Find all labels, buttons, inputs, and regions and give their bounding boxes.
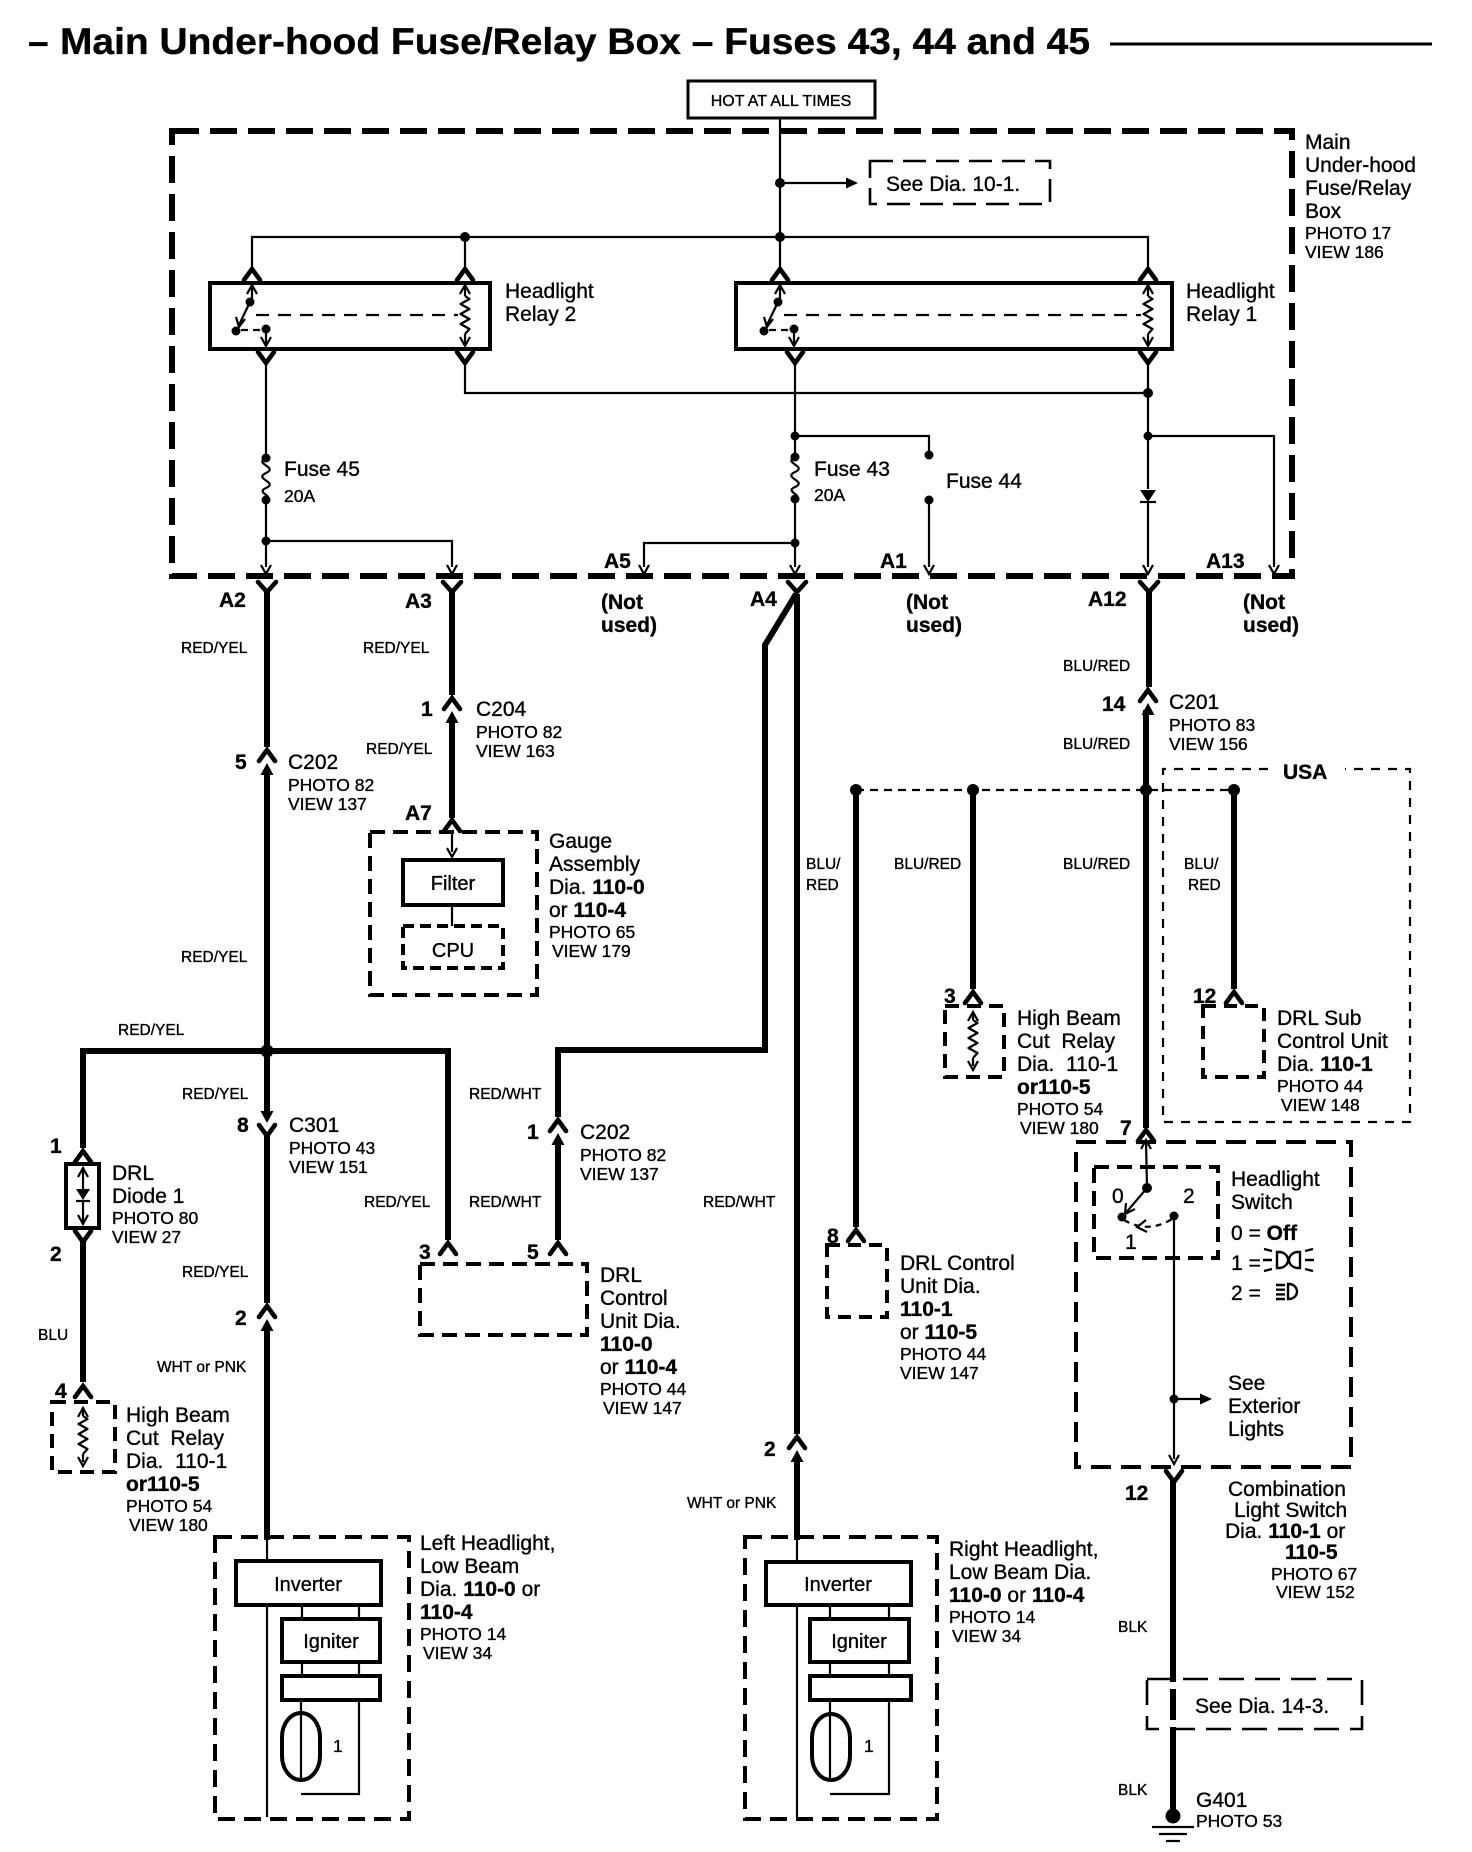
wire: socket to bulb (left) [301,1700,359,1794]
pin arrow into A2 [261,565,271,574]
connector C204 pin 1 [421,698,562,761]
svg-text:BLU/: BLU/ [1184,856,1219,873]
svg-text:110-0: 110-0 [600,1333,653,1356]
connector half: relay 1 coil output [1140,352,1156,363]
connector: DRL diode pin 1 [50,1135,91,1162]
svg-text:110-4: 110-4 [420,1601,473,1624]
wire: inverter return (left) [266,1605,268,1817]
wire: C201 to headlight switch pin 7 (BLU/RED) [1143,710,1149,1128]
svg-text:BLU: BLU [38,1327,68,1344]
svg-text:8: 8 [237,1114,249,1137]
svg-text:Relay 1: Relay 1 [1186,303,1257,326]
svg-text:C204: C204 [476,698,527,721]
svg-text:RED/YEL: RED/YEL [182,1264,249,1281]
svg-text:RED/WHT: RED/WHT [469,1194,542,1211]
svg-text:See: See [1228,1372,1265,1395]
svg-text:Fuse 45: Fuse 45 [284,458,360,481]
node: BLU/RED junction on main wire [1140,784,1152,796]
pin arrow into A3 [447,565,457,574]
svg-text:Box: Box [1305,200,1342,223]
wire: diode to relay (BLU) [80,1240,86,1382]
wire: BLK to ground [1170,1480,1176,1814]
wires: igniter to socket (right) [830,1662,889,1676]
svg-text:Lights: Lights [1228,1418,1284,1441]
svg-text:PHOTO 43: PHOTO 43 [289,1138,375,1158]
label: Fuse 45 20A [284,458,360,506]
svg-text:PHOTO 82: PHOTO 82 [476,722,562,742]
svg-text:Right Headlight,: Right Headlight, [949,1538,1098,1561]
svg-text:Dia. 110-1: Dia. 110-1 [1017,1053,1118,1076]
relay: High Beam Cut Relay (right) [945,1006,1004,1077]
svg-text:Dia. 110-1 or: Dia. 110-1 or [1225,1520,1345,1543]
svg-text:Diode 1: Diode 1 [112,1185,184,1208]
label: DRL Control Unit (right) [900,1252,1015,1383]
svg-text:Main: Main [1305,131,1351,154]
wire: to Left Headlight (WHT or PNK) [264,1326,270,1540]
svg-text:PHOTO 82: PHOTO 82 [288,775,374,795]
svg-text:or 110-5: or 110-5 [900,1321,977,1344]
svg-text:2: 2 [1183,1185,1195,1208]
svg-text:See Dia. 10-1.: See Dia. 10-1. [886,173,1020,196]
wire: switch output to combination light switch pin 12 [1173,1216,1175,1459]
svg-text:Control: Control [600,1287,668,1310]
svg-text:WHT or PNK: WHT or PNK [157,1359,247,1376]
wire: branch to A13 [1148,436,1274,567]
svg-text:Under-hood: Under-hood [1305,154,1416,177]
ground G401 [1152,1809,1194,1842]
svg-text:PHOTO 17: PHOTO 17 [1305,223,1391,243]
svg-text:PHOTO 83: PHOTO 83 [1169,715,1255,735]
switch S1 detail box (dashed) [1094,1167,1218,1258]
svg-text:Headlight: Headlight [1186,280,1275,303]
svg-text:BLU/: BLU/ [806,856,841,873]
svg-text:DRL: DRL [112,1162,154,1185]
svg-text:PHOTO 14: PHOTO 14 [420,1624,507,1644]
svg-text:PHOTO 44: PHOTO 44 [600,1379,687,1399]
svg-text:20A: 20A [814,485,845,505]
svg-text:DRL Control: DRL Control [900,1252,1015,1275]
diode assembly: DRL Diode 1 [66,1164,99,1228]
wires: igniter to socket (left) [302,1662,359,1676]
connector: DRL control unit pin 3 [419,1241,456,1264]
svg-text:VIEW 152: VIEW 152 [1276,1582,1355,1602]
connector half: relay 1 coil pin top [1140,269,1156,280]
svg-text:Low Beam: Low Beam [420,1555,519,1578]
wires: inverter to igniter (left) [302,1605,359,1619]
svg-text:20A: 20A [284,486,315,506]
connector: DRL control unit pin 5 [527,1241,566,1264]
svg-text:110-1: 110-1 [900,1298,953,1321]
svg-text:or110-5: or110-5 [1017,1076,1091,1099]
svg-text:A3: A3 [405,590,432,613]
label: Combination Light Switch [1225,1478,1357,1602]
wire: HOT feed vertical into box [779,118,781,270]
svg-text:Dia. 110-1: Dia. 110-1 [1277,1053,1373,1076]
connector: combination light switch pin 12 [1125,1471,1182,1505]
svg-text:VIEW 34: VIEW 34 [423,1643,492,1663]
svg-text:Left Headlight,: Left Headlight, [420,1532,555,1555]
label: DRL Diode 1 [112,1162,199,1247]
svg-text:or 110-4: or 110-4 [600,1356,677,1379]
label: BLU/ RED (two line, left) [806,856,841,894]
net: BLU/RED distribution (dashed tie line) [856,789,1234,791]
connector half: relay 2 switch pin top [244,269,260,280]
svg-text:DRL Sub: DRL Sub [1277,1007,1361,1030]
svg-text:VIEW 147: VIEW 147 [603,1398,682,1418]
connector: DRL diode pin 2 [50,1231,91,1266]
svg-text:110-0 or 110-4: 110-0 or 110-4 [949,1584,1085,1607]
node: BLU/RED tap to high beam cut relay [967,784,979,796]
svg-text:Unit Dia.: Unit Dia. [600,1310,681,1333]
wire: C202 pin 5 to junction (RED/YEL) [264,770,270,1051]
svg-text:7: 7 [1120,1117,1132,1140]
svg-text:used): used) [906,614,962,637]
module: Headlight Switch (dashed boundary) [1076,1142,1351,1467]
svg-text:1 =: 1 = [1231,1252,1261,1275]
node: coil bus junction on relay 1 coil drop [1143,388,1153,398]
wire: A4 feed straight drop (RED/WHT to right headlight) [794,594,800,1434]
wire: inverter return (right) [796,1605,798,1817]
svg-text:14: 14 [1102,693,1126,716]
wire: relay 2 switch output to Fuse 45 [265,363,267,458]
svg-text:Control Unit: Control Unit [1277,1030,1388,1053]
svg-text:A2: A2 [219,589,246,612]
node: branch to Fuse 44 [791,432,800,441]
wire: A3 feed (RED/YEL) to C204 [449,590,455,695]
svg-text:4: 4 [55,1380,67,1403]
node: bus junction at relay 1 switch feed [775,232,785,242]
svg-text:RED/YEL: RED/YEL [182,1086,249,1103]
svg-text:A1: A1 [880,550,907,573]
label: A5 (Not used) [601,591,657,637]
svg-text:G401: G401 [1196,1789,1247,1812]
lamp: right low beam bulb [812,1714,874,1780]
relay K1 mechanical link (dashed) [784,314,1141,316]
node: tap to See Dia. 10-1 [775,178,785,188]
pin arrow into A1 [924,565,934,574]
svg-text:VIEW 163: VIEW 163 [476,741,555,761]
connector: gauge assembly pin A7 [405,802,460,831]
svg-text:VIEW 137: VIEW 137 [288,794,367,814]
Main Under-hood Fuse/Relay Box boundary (dashed) [172,131,1292,576]
svg-text:2: 2 [235,1307,247,1330]
svg-text:used): used) [1243,614,1299,637]
svg-text:BLU/RED: BLU/RED [894,856,961,873]
svg-text:Cut Relay: Cut Relay [126,1427,225,1450]
connector: DRL sub control unit pin 12 [1193,985,1242,1008]
svg-text:PHOTO 44: PHOTO 44 [1277,1076,1364,1096]
svg-text:Low Beam Dia.: Low Beam Dia. [949,1561,1091,1584]
block: bulb socket (left) [282,1676,380,1700]
connector half: relay 1 switch pin top [772,269,788,280]
svg-text:C201: C201 [1169,691,1219,714]
label: G401 [1196,1789,1282,1831]
connector C301 pin 8 [237,1111,375,1177]
svg-text:VIEW 148: VIEW 148 [1281,1095,1360,1115]
wire: A12 feed (BLU/RED) to C201 [1146,590,1152,687]
relay: High Beam Cut Relay (left) [52,1402,115,1472]
node: bus junction at relay 2 coil feed [460,232,470,242]
connector: right headlight pin 2 [764,1437,805,1462]
label: Headlight Relay 2 [505,280,594,326]
svg-text:Fuse 43: Fuse 43 [814,458,890,481]
svg-text:Fuse/Relay: Fuse/Relay [1305,177,1412,200]
svg-text:CPU: CPU [432,940,474,962]
svg-text:2 =: 2 = [1231,1282,1261,1305]
label: A13 (Not used) [1243,591,1299,637]
svg-text:VIEW 27: VIEW 27 [112,1227,181,1247]
svg-text:VIEW 34: VIEW 34 [952,1626,1021,1646]
svg-text:VIEW 156: VIEW 156 [1169,734,1248,754]
wire: Fuse 45 to A2 / A3 [265,500,267,567]
wire: arrow to See Dia. 10-1 [780,178,858,189]
svg-text:VIEW 137: VIEW 137 [580,1164,659,1184]
wire: arrow to See Exterior Lights [1174,1394,1212,1405]
svg-text:A13: A13 [1206,550,1245,573]
svg-text:3: 3 [419,1241,431,1264]
svg-text:HOT AT ALL TIMES: HOT AT ALL TIMES [711,93,852,110]
reference box: See Dia. 10-1. [870,161,1050,204]
node: BLU/RED tap to DRL control unit [850,784,862,796]
connector half: relay 2 coil output [457,352,473,363]
power label HOT AT ALL TIMES [688,81,875,118]
fuse F44 (not installed) [925,451,934,505]
connector: DRL control unit pin 8 [827,1225,864,1248]
svg-text:RED/YEL: RED/YEL [366,741,433,758]
svg-text:PHOTO 54: PHOTO 54 [1017,1099,1104,1119]
node: tap to exterior lights [1170,1395,1179,1404]
block: CPU (dashed) [403,926,503,968]
wire: Fuse 44 to A1 [928,500,930,567]
wire: BLU/RED drop to high beam cut relay pin 3 [970,790,976,989]
region: USA (dashed outline) [1163,761,1410,1122]
svg-text:1: 1 [527,1121,539,1144]
wires: inverter to igniter (right) [830,1605,889,1619]
label: Headlight Relay 1 [1186,280,1275,326]
svg-text:Gauge: Gauge [549,830,612,853]
wire: junction down to C301 [264,1051,270,1114]
Main Under-hood Fuse/Relay Box label [1305,131,1416,262]
svg-text:1: 1 [333,1736,343,1756]
svg-text:Dia. 110-1: Dia. 110-1 [126,1450,227,1473]
label: Fuse 43 20A [814,458,890,505]
connector half: relay 2 coil pin top [457,269,473,280]
switch S1: rotary contact [1112,1183,1195,1254]
svg-text:110-5: 110-5 [1285,1541,1338,1564]
wire: relay 1 switch output to Fuse 43 [794,363,796,457]
svg-text:Light Switch: Light Switch [1234,1499,1347,1522]
relay K2 body: Headlight Relay 2 [210,283,490,349]
connector A12 [1088,582,1158,611]
svg-text:PHOTO 54: PHOTO 54 [126,1496,213,1516]
wire: C202 to DRL control unit pin 5 [555,1140,561,1240]
relay K1 switch contact [760,285,800,346]
svg-text:PHOTO 65: PHOTO 65 [549,922,635,942]
svg-text:C202: C202 [580,1121,630,1144]
connector half: relay 1 switch output [787,352,803,363]
module: Gauge Assembly (dashed) [370,832,537,995]
module: DRL Control Unit (right, dashed) [827,1245,887,1317]
wire: diode to A12 [1147,503,1149,567]
svg-text:VIEW 151: VIEW 151 [289,1157,368,1177]
svg-text:RED: RED [806,877,839,894]
svg-text:Headlight: Headlight [505,280,594,303]
wire: internal feed arrow to filter [447,833,457,857]
svg-text:Dia. 110-0: Dia. 110-0 [549,876,645,899]
node: BLU/RED tap to DRL sub control unit [1228,784,1240,796]
svg-text:RED/WHT: RED/WHT [469,1086,542,1103]
svg-text:PHOTO 67: PHOTO 67 [1271,1564,1357,1584]
svg-text:C202: C202 [288,751,338,774]
pin arrow into A4 [790,565,800,574]
svg-text:RED/YEL: RED/YEL [118,1022,185,1039]
block: Filter [403,860,503,905]
wire: socket to bulb (right) [830,1700,889,1794]
svg-text:(Not: (Not [1243,591,1285,614]
label: See Exterior Lights [1228,1372,1300,1441]
svg-text:BLU/RED: BLU/RED [1063,856,1130,873]
svg-text:Main Under-hood Fuse/Relay Box: Main Under-hood Fuse/Relay Box – Fuses 4… [60,21,1090,62]
label: DRL Sub Control Unit [1277,1007,1388,1115]
wire: branch to Fuse 44 [795,436,929,452]
connector: headlight switch pin 7 [1120,1117,1154,1141]
svg-text:Switch: Switch [1231,1191,1293,1214]
svg-text:A12: A12 [1088,588,1127,611]
module: DRL Control Unit (dashed) [420,1264,587,1335]
connector half: relay 2 switch output [258,352,274,363]
fuse F45 [262,454,271,505]
svg-text:Cut Relay: Cut Relay [1017,1030,1116,1053]
wire: to Right Headlight (WHT or PNK) [794,1457,800,1540]
svg-text:BLK: BLK [1118,1619,1148,1636]
pin arrow into A5 [639,565,649,574]
svg-text:VIEW 186: VIEW 186 [1305,242,1384,262]
connector: high beam cut relay pin 4 [55,1380,91,1403]
module: DRL Sub Control Unit (dashed) [1203,1006,1264,1077]
svg-text:RED/YEL: RED/YEL [181,949,248,966]
reference box: See Dia. 14-3. [1147,1679,1362,1729]
svg-text:1: 1 [864,1736,874,1756]
connector A4 [750,582,806,611]
svg-text:VIEW 147: VIEW 147 [900,1363,979,1383]
label: High Beam Cut Relay (right) [1017,1007,1121,1138]
icon: high beam symbol (position 2) [1276,1284,1297,1299]
connector C202 pin 1 [527,1120,666,1184]
svg-text:Unit Dia.: Unit Dia. [900,1275,981,1298]
wire: top distribution bus [252,237,1148,270]
wire: BLU/RED drop to DRL control unit pin 8 [853,790,859,1227]
svg-text:High Beam: High Beam [1017,1007,1121,1030]
svg-text:2: 2 [50,1243,62,1266]
block: Inverter (left) [236,1561,381,1605]
svg-text:BLK: BLK [1118,1782,1148,1799]
relay K2 switch contact [232,285,272,346]
connector A2 [219,582,276,612]
node: junction on A2 wire [261,1045,274,1058]
label: Left Headlight, Low Beam [420,1532,555,1663]
label: BLU/ RED (inside USA box) [1184,856,1221,894]
svg-text:VIEW 180: VIEW 180 [1020,1118,1099,1138]
wire: C204 to gauge assembly A7 [449,718,455,818]
svg-text:A5: A5 [604,550,631,573]
connector: high beam cut relay pin 3 [944,985,981,1008]
svg-text:PHOTO 14: PHOTO 14 [949,1607,1036,1627]
svg-text:Exterior: Exterior [1228,1395,1300,1418]
wire: Fuse 43 to A4 / A5 [794,499,796,567]
connector: left headlight pin 2 [235,1306,275,1331]
svg-text:used): used) [601,614,657,637]
svg-text:BLU/RED: BLU/RED [1063,736,1130,753]
pin arrow into A12 [1143,565,1153,574]
wire: A4 feed slant to RED/WHT drop [558,594,796,1117]
connector C201 pin 14 [1102,690,1255,754]
svg-text:1: 1 [421,698,433,721]
label: Gauge Assembly [549,830,645,961]
label: Right Headlight, Low Beam [949,1538,1098,1646]
wire: pin 7 arrow into switch [1141,1140,1151,1186]
svg-text:Fuse 44: Fuse 44 [946,470,1022,493]
block: bulb socket (right) [810,1676,911,1700]
svg-text:BLU/RED: BLU/RED [1063,658,1130,675]
svg-text:1: 1 [1125,1231,1137,1254]
label: High Beam Cut Relay (left) [126,1404,230,1535]
svg-text:VIEW 179: VIEW 179 [552,941,631,961]
svg-text:RED: RED [1188,877,1221,894]
svg-text:VIEW 180: VIEW 180 [129,1515,208,1535]
svg-text:Combination: Combination [1228,1478,1346,1501]
wire: relay coil common bus to diode [465,363,1148,393]
svg-text:WHT or PNK: WHT or PNK [687,1495,777,1512]
wire: BLU/RED drop to DRL sub control unit pin 12 [1231,790,1237,989]
relay K1 body: Headlight Relay 1 [736,283,1172,349]
svg-text:5: 5 [527,1241,539,1264]
relay K2 coil [460,285,470,346]
svg-text:USA: USA [1283,761,1327,784]
svg-text:0: 0 [1112,1185,1124,1208]
svg-text:PHOTO 82: PHOTO 82 [580,1145,666,1165]
block: Igniter (right) [810,1619,909,1662]
svg-text:Inverter: Inverter [274,1574,342,1596]
diode D1 (in fuse box) [1140,490,1156,502]
svg-text:12: 12 [1125,1482,1148,1505]
fuse F43 [791,453,800,504]
svg-text:PHOTO 80: PHOTO 80 [112,1208,199,1228]
connector A3 [405,582,461,613]
svg-text:Igniter: Igniter [303,1631,359,1653]
svg-text:RED/YEL: RED/YEL [364,1194,431,1211]
label: Headlight Switch legend [1231,1168,1320,1305]
relay K2 mechanical link (dashed) [256,314,458,316]
svg-text:High Beam: High Beam [126,1404,230,1427]
title: Main Under-hood Fuse/Relay Box - Fuses 43, 44 and 45 [28,21,1432,62]
svg-text:Igniter: Igniter [831,1631,887,1653]
svg-text:Relay 2: Relay 2 [505,303,576,326]
label: DRL Control Unit [600,1264,687,1418]
module: Right Headlight (dashed) [745,1537,937,1819]
wire: relay 2 coil feed drop [464,237,466,270]
svg-text:(Not: (Not [906,591,948,614]
pin arrow into A13 [1269,565,1279,574]
svg-text:Headlight: Headlight [1231,1168,1320,1191]
svg-text:5: 5 [235,751,247,774]
block: Inverter (right) [766,1562,911,1605]
wire: RED/YEL distribution tee [83,1051,448,1240]
svg-text:RED/YEL: RED/YEL [363,640,430,657]
svg-text:PHOTO 44: PHOTO 44 [900,1344,987,1364]
svg-text:2: 2 [764,1438,776,1461]
connector C202 pin 5 [235,750,374,814]
svg-text:Filter: Filter [431,873,476,895]
